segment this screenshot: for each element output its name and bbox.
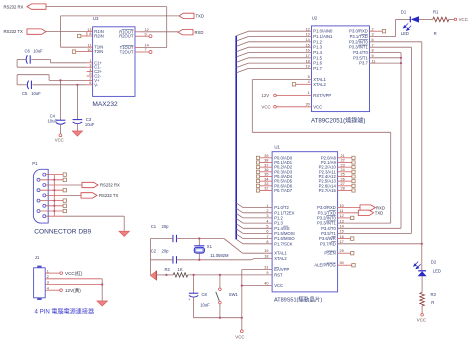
svg-text:4: 4	[89, 68, 91, 72]
U3 T2IN no-connect square	[76, 51, 87, 53]
svg-text:19: 19	[306, 65, 310, 69]
wire U2 P3.1/TXD to LED D1	[370, 36, 396, 38]
svg-text:VCC: VCC	[261, 105, 270, 110]
svg-text:P3.1/TXD: P3.1/TXD	[350, 34, 368, 39]
svg-text:20p: 20p	[162, 248, 170, 253]
svg-text:32: 32	[264, 187, 268, 191]
svg-text:P3.4/T0: P3.4/T0	[353, 50, 368, 55]
svg-text:D2: D2	[431, 259, 437, 264]
ground (left rail)	[150, 271, 156, 279]
svg-text:28: 28	[341, 187, 345, 191]
U1 pin 1 P1.0/T2	[243, 207, 272, 209]
svg-text:12: 12	[145, 28, 149, 32]
U1 pin 31 EA/VPP	[242, 269, 272, 271]
svg-text:11: 11	[88, 43, 92, 47]
svg-text:P3.0/RXD: P3.0/RXD	[349, 29, 368, 34]
U2 pin 16 P1.4	[249, 52, 312, 54]
svg-text:26: 26	[341, 177, 345, 181]
svg-text:R3: R3	[431, 292, 437, 297]
svg-text:18: 18	[264, 254, 268, 258]
svg-text:27: 27	[341, 182, 345, 186]
U2 pin 4 XTAL2 no-connect	[296, 83, 312, 85]
crystal X1 11.0592M	[198, 237, 200, 239]
svg-text:16: 16	[340, 235, 344, 239]
svg-text:TXD: TXD	[196, 14, 204, 19]
U3 pin 10 T2IN	[87, 51, 93, 53]
P1 pin 7 no-connect square	[63, 204, 66, 207]
svg-text:D1: D1	[401, 9, 407, 14]
svg-text:10uF: 10uF	[33, 49, 43, 54]
svg-text:P3.7/RD: P3.7/RD	[320, 241, 336, 246]
U1 pin 6 P1.5/MOSI	[243, 232, 272, 234]
svg-text:C8: C8	[202, 292, 208, 297]
svg-text:P1.0/AIN0: P1.0/AIN0	[313, 29, 333, 34]
svg-text:3: 3	[89, 63, 91, 67]
U1 pin 39 P0.0/AD0	[260, 157, 272, 159]
P1 pin 5	[43, 194, 46, 197]
resistor R1	[433, 17, 449, 22]
svg-text:XTAL2: XTAL2	[313, 82, 326, 87]
power VCC (bottom)	[240, 330, 243, 333]
port RXD (top)	[178, 30, 193, 35]
U3 pin 1 C1+	[87, 62, 93, 64]
P1 pin 1	[43, 173, 46, 176]
svg-text:XTAL1: XTAL1	[274, 251, 287, 256]
U3 pin 5 C2-	[87, 75, 93, 77]
U1 pin 34 P0.5/AD5	[260, 180, 272, 182]
ground (J1)	[97, 301, 108, 306]
P1 pin 8	[37, 210, 40, 213]
switch SW1	[219, 275, 221, 288]
svg-text:SW1: SW1	[229, 292, 239, 297]
wire D2 to R3	[421, 276, 423, 292]
svg-text:5: 5	[308, 75, 310, 79]
svg-text:9: 9	[266, 271, 268, 275]
P1 pin 4	[37, 189, 40, 192]
svg-text:4: 4	[308, 80, 310, 84]
U1 P3.6 no-connect	[338, 238, 351, 240]
svg-text:AT89S51(驅動晶片): AT89S51(驅動晶片)	[274, 296, 322, 304]
svg-text:C6: C6	[25, 49, 31, 54]
wire D1 to R1	[419, 18, 433, 20]
wire EA/VPP to VCC	[241, 270, 243, 286]
svg-text:2: 2	[89, 77, 91, 81]
wire C1 row	[151, 238, 173, 240]
U1 pin 7 P1.6/MISO	[243, 238, 272, 240]
svg-text:VCC: VCC	[459, 17, 468, 22]
svg-text:T2IN: T2IN	[94, 49, 103, 54]
wire TXD to T1IN	[61, 15, 180, 17]
diode D2 LED	[421, 244, 423, 271]
svg-text:17: 17	[340, 240, 344, 244]
svg-text:EA/VPP: EA/VPP	[274, 267, 289, 272]
svg-text:17: 17	[306, 54, 310, 58]
svg-text:20: 20	[306, 102, 310, 106]
svg-text:10uF: 10uF	[31, 91, 41, 96]
wire R1IN-R2IN tie	[86, 32, 88, 36]
U2 pin 15 P1.3	[249, 46, 312, 48]
svg-text:8: 8	[89, 32, 91, 36]
U3 pin 9 R2OUT	[135, 35, 140, 37]
svg-text:U2: U2	[312, 16, 318, 21]
svg-text:40: 40	[264, 281, 268, 285]
U1 pin 29 PSEN no-connect	[338, 252, 351, 254]
P1 pin 6	[37, 199, 40, 202]
U3 pin 2 V+	[87, 79, 93, 81]
U3 pin 8 R2IN	[87, 35, 93, 37]
svg-text:25: 25	[341, 173, 345, 177]
svg-text:37: 37	[264, 163, 268, 167]
node junction (421.8,243.8)	[421, 243, 423, 245]
U1 pin 22 P2.1/A9	[338, 161, 352, 163]
svg-text:11: 11	[340, 209, 344, 213]
port RXD (U1)	[338, 207, 361, 209]
wire RS232TX to R1IN	[46, 31, 87, 33]
svg-text:34: 34	[264, 177, 268, 181]
node SW1 junction	[219, 274, 221, 276]
node C8 junction	[193, 274, 195, 276]
svg-text:J1: J1	[35, 255, 40, 260]
svg-text:VCC: VCC	[313, 104, 322, 109]
node junction (401,57.8)	[400, 57, 402, 59]
svg-text:VCC: VCC	[417, 317, 426, 322]
svg-text:15: 15	[340, 230, 344, 234]
svg-text:13: 13	[340, 219, 344, 223]
U3 T2OUT no-connect circle	[140, 51, 149, 53]
svg-text:+: +	[188, 298, 190, 302]
U3 R2IN no-connect square	[81, 35, 87, 37]
U1 P3.2 no-connect	[338, 217, 351, 219]
svg-text:P1.1/AIN1: P1.1/AIN1	[313, 34, 333, 39]
wire bottom rail	[194, 317, 242, 319]
svg-text:CONNECTOR DB9: CONNECTOR DB9	[34, 228, 91, 235]
svg-text:VCC: VCC	[235, 335, 244, 340]
wire J1 pin4 12V	[45, 289, 59, 291]
U3 pin 12 R1OUT	[135, 31, 140, 33]
svg-text:23: 23	[341, 163, 345, 167]
svg-text:ALE/PROG: ALE/PROG	[314, 263, 335, 268]
svg-text:V-: V-	[94, 82, 99, 87]
node junction (401,63.1)	[400, 62, 402, 64]
svg-text:P3.7: P3.7	[359, 61, 368, 66]
wire RST net	[188, 274, 272, 276]
U1 pin 8 P1.7/SCK	[243, 243, 272, 245]
node R2 left junction	[165, 274, 167, 276]
svg-text:19: 19	[264, 249, 268, 253]
U2 pin 19 P1.7	[249, 67, 312, 69]
svg-text:33: 33	[264, 182, 268, 186]
svg-text:6: 6	[89, 81, 91, 85]
svg-text:22: 22	[341, 159, 345, 163]
power VCC (C4)	[59, 134, 62, 137]
svg-text:12V: 12V	[261, 93, 269, 98]
wire R3 to VCC	[421, 306, 423, 313]
svg-text:VCC: VCC	[55, 137, 64, 142]
op-amp U3 MAX232	[93, 27, 135, 97]
wire J1 pin1 VCC	[45, 272, 60, 274]
svg-text:AT89C2051(燒錄端): AT89C2051(燒錄端)	[311, 117, 365, 125]
U3 pin 11 T1IN	[87, 46, 93, 48]
port TXD (U1)	[338, 212, 359, 214]
U2 pin 13 P1.1/AIN1	[249, 36, 312, 38]
svg-text:P1.5: P1.5	[313, 55, 322, 60]
svg-text:X1: X1	[207, 244, 213, 249]
P1 pin 2 no-connect square	[63, 178, 66, 181]
U1 pin 37 P0.2/AD2	[260, 166, 272, 168]
svg-text:12V(黃): 12V(黃)	[65, 287, 81, 294]
wire U2 P3.7 join	[370, 62, 402, 64]
svg-text:39: 39	[264, 154, 268, 158]
wire U2 P3.3 down to U1 P3.5	[370, 46, 412, 48]
svg-text:35: 35	[264, 173, 268, 177]
svg-text:RS232 RX: RS232 RX	[4, 4, 24, 9]
svg-text:R2OUT: R2OUT	[119, 34, 134, 39]
diode D1 LED	[409, 16, 411, 22]
P1 pin 7	[43, 204, 46, 207]
svg-text:1: 1	[308, 91, 310, 95]
svg-text:P1.3: P1.3	[313, 45, 322, 50]
wire left rail	[150, 239, 152, 275]
svg-text:1: 1	[47, 269, 49, 273]
U3 pin 3 C1-	[87, 66, 93, 68]
svg-text:13: 13	[87, 28, 91, 32]
svg-text:12: 12	[306, 27, 310, 31]
svg-text:MAX232: MAX232	[92, 101, 118, 108]
wire C1 to U1 XTAL1 (diagonal)	[224, 239, 243, 254]
svg-text:P0.7/AD7: P0.7/AD7	[274, 188, 293, 193]
svg-text:10: 10	[87, 48, 91, 52]
U2 pin 17 P1.5	[249, 57, 312, 59]
svg-text:21: 21	[341, 154, 345, 158]
svg-text:10uF: 10uF	[85, 122, 95, 127]
svg-text:P1.7: P1.7	[313, 66, 322, 71]
wire P1 tie bus	[53, 175, 55, 217]
svg-text:U3: U3	[93, 16, 99, 21]
mcu U1 AT89S51	[272, 152, 338, 292]
port TXD (top)	[179, 13, 194, 18]
bus P1.x (blue)	[235, 36, 237, 240]
svg-text:LED: LED	[401, 31, 409, 36]
U1 pin 19 XTAL1	[243, 252, 273, 254]
svg-text:LED: LED	[433, 269, 441, 274]
svg-text:T2OUT: T2OUT	[120, 50, 134, 55]
svg-text:30: 30	[340, 261, 344, 265]
U1 pin 25 P2.4/A12	[338, 175, 352, 177]
node bottom rail junctions	[219, 317, 221, 319]
U1 pin 24 P2.3/A11	[338, 171, 352, 173]
wire C6 right to C1+	[31, 59, 50, 61]
svg-text:14: 14	[340, 225, 344, 229]
capacitor C8 10uF	[193, 275, 195, 293]
U1 pin 36 P0.3/AD3	[260, 171, 272, 173]
wire VCC down	[241, 286, 243, 330]
svg-text:P2.7/A15: P2.7/A15	[319, 188, 337, 193]
U3 pin 7 T2OUT	[135, 51, 140, 53]
U1 pin 27 P2.6/A14	[338, 185, 352, 187]
wire J1 pin2 to ground	[45, 278, 102, 280]
svg-text:U1: U1	[274, 145, 280, 150]
svg-text:C5: C5	[22, 91, 28, 96]
node V+ / C4 junction	[59, 79, 61, 81]
svg-text:P3.3/INT1: P3.3/INT1	[349, 45, 369, 50]
U3 R2OUT no-connect circle	[140, 35, 149, 37]
U3 pin 13 R1IN	[87, 31, 93, 33]
svg-text:RST/VPP: RST/VPP	[313, 93, 331, 98]
svg-text:24: 24	[341, 168, 345, 172]
svg-text:10uF: 10uF	[200, 303, 210, 308]
U1 pin 32 P0.7/AD7	[260, 189, 272, 191]
U1 pin 23 P2.2/A10	[338, 166, 352, 168]
svg-text:18: 18	[306, 59, 310, 63]
U1 pin 4 P1.3	[243, 222, 272, 224]
wire P1 pin9 to ground	[63, 215, 124, 217]
svg-text:P3.5/T1: P3.5/T1	[353, 55, 368, 60]
svg-text:4: 4	[47, 286, 49, 290]
U1 pin 21 P2.0/A8	[338, 157, 352, 159]
P1 pin 4 no-connect square	[63, 189, 66, 192]
wire R1OUT to RXD	[140, 31, 178, 33]
power VCC (R3)	[421, 314, 424, 317]
svg-text:1K: 1K	[178, 267, 183, 272]
svg-text:R2: R2	[165, 267, 171, 272]
P1 pin 1 no-connect square	[63, 173, 66, 176]
svg-text:TXD: TXD	[375, 211, 383, 216]
P1 pin 2	[37, 178, 40, 181]
wire U2 P3.2 down to U1 P3.7 / D2	[370, 41, 422, 43]
wire RS232RX to T1OUT	[46, 6, 167, 8]
P1 pin 6 no-connect square	[63, 199, 66, 202]
svg-text:R2IN: R2IN	[94, 34, 104, 39]
svg-text:15: 15	[306, 43, 310, 47]
resistor R3	[420, 293, 425, 307]
svg-text:14: 14	[306, 38, 310, 42]
svg-text:3: 3	[266, 214, 268, 218]
svg-text:5: 5	[89, 72, 91, 76]
wire J1 pin3 to ground	[45, 284, 102, 286]
U2 P3.0 no-connect square	[370, 30, 383, 32]
svg-text:RST: RST	[274, 272, 283, 277]
svg-text:7: 7	[266, 235, 268, 239]
port RS232 TX (DB9 pin5)	[63, 194, 81, 196]
U2 pin 14 P1.2	[249, 41, 312, 43]
U1 pin 33 P0.6/AD6	[260, 185, 272, 187]
node J1 gnd junction	[101, 283, 103, 285]
U3 pin 6 V-	[87, 84, 93, 86]
svg-text:20p: 20p	[162, 224, 170, 229]
svg-text:2: 2	[266, 209, 268, 213]
svg-text:1: 1	[266, 204, 268, 208]
U1 pin 2 P1.1/T2EX	[243, 212, 272, 214]
svg-text:P1.2: P1.2	[313, 39, 322, 44]
port RS232 RX (DB9 pin3)	[63, 184, 82, 186]
U1 pin 38 P0.1/AD1	[260, 161, 272, 163]
wire U1 P3.7 to D2 net	[338, 243, 422, 245]
svg-text:P1.7/SCK: P1.7/SCK	[274, 241, 293, 246]
ground (C3)	[72, 131, 82, 136]
wire V- down to C3	[76, 85, 78, 120]
svg-text:C2: C2	[151, 248, 157, 253]
svg-text:VCC(紅): VCC(紅)	[65, 270, 83, 277]
U3 pin 14 T1OUT	[135, 47, 140, 49]
wire C2 row	[151, 259, 173, 261]
P1 pin 3	[43, 184, 46, 187]
svg-text:R: R	[434, 31, 437, 36]
svg-text:29: 29	[340, 249, 344, 253]
svg-text:10: 10	[340, 204, 344, 208]
svg-text:P1.6: P1.6	[313, 61, 322, 66]
svg-text:8: 8	[266, 240, 268, 244]
U2 pin 18 P1.6	[249, 62, 312, 64]
svg-text:38: 38	[264, 159, 268, 163]
wire V+ down to C4	[59, 80, 61, 120]
U1 pin 30 ALE/PROG no-connect	[338, 264, 352, 266]
svg-text:16: 16	[306, 49, 310, 53]
svg-text:14: 14	[145, 44, 149, 48]
U1 pin 35 P0.4/AD4	[260, 175, 272, 177]
P1 pin 9	[43, 215, 46, 218]
svg-text:R: R	[431, 300, 434, 305]
mcu U2 AT89C2051	[312, 26, 370, 112]
U2 pin 12 P1.0/AIN0	[249, 30, 312, 32]
U1 pin 5 P1.4/SS	[243, 227, 272, 229]
wire U2 P3.5 join	[370, 57, 402, 59]
wire U2 XTAL1 loop to U1 P3.3	[251, 80, 253, 133]
svg-text:11.0592M: 11.0592M	[210, 253, 229, 258]
svg-text:4 PIN 電腦電源連接器: 4 PIN 電腦電源連接器	[35, 307, 95, 315]
P1 pin 8 no-connect square	[63, 209, 66, 212]
svg-text:PSEN: PSEN	[324, 251, 335, 256]
wire C6 left to C1-	[17, 59, 26, 61]
svg-text:R1: R1	[433, 9, 439, 14]
svg-text:2: 2	[372, 27, 374, 31]
wire C5 left loop to V+	[17, 84, 27, 86]
svg-text:P3.2/INT0: P3.2/INT0	[349, 39, 369, 44]
svg-text:13: 13	[306, 33, 310, 37]
U1 pin 26 P2.5/A13	[338, 180, 352, 182]
U1 pin 40 VCC	[242, 285, 272, 287]
svg-text:5: 5	[266, 225, 268, 229]
svg-text:1: 1	[89, 59, 91, 63]
svg-text:RS232 TX: RS232 TX	[99, 193, 118, 198]
wire U2 P3.4 down to U1 P3.4	[370, 52, 402, 54]
U1 pin 18 XTAL2	[255, 258, 273, 260]
ground (DB9)	[119, 231, 130, 236]
svg-text:P1.4: P1.4	[313, 50, 322, 55]
svg-text:VCC: VCC	[274, 283, 283, 288]
svg-text:6: 6	[266, 230, 268, 234]
svg-text:P1: P1	[32, 161, 38, 166]
svg-text:RS232 RX: RS232 RX	[100, 183, 120, 188]
node VCC junction	[241, 285, 243, 287]
svg-text:RS232 TX: RS232 TX	[4, 29, 23, 34]
svg-text:36: 36	[264, 168, 268, 172]
U1 pin 28 P2.7/A15	[338, 189, 352, 191]
U1 pin 3 P1.2	[243, 217, 272, 219]
wire C5 right to V-	[32, 84, 86, 86]
svg-text:31: 31	[264, 265, 268, 269]
svg-text:C1: C1	[151, 224, 157, 229]
power VCC (R1)	[449, 18, 454, 20]
U2 pin 5 XTAL1	[252, 79, 311, 81]
svg-text:4: 4	[266, 219, 268, 223]
node V- / C3 junction	[76, 84, 78, 86]
U3 pin 4 C2+	[87, 71, 93, 73]
svg-text:XTAL2: XTAL2	[274, 256, 287, 261]
svg-text:RXD: RXD	[195, 30, 204, 35]
